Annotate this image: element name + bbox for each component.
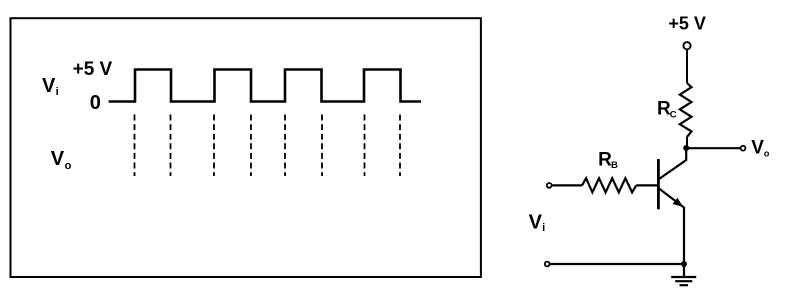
svg-text:V: V: [529, 211, 543, 233]
svg-text:o: o: [764, 149, 770, 159]
transistor Q1 emitter lead: [659, 189, 684, 265]
dashed edge marker 1: [134, 115, 136, 177]
svg-text:B: B: [611, 160, 618, 171]
dashed edge marker 4: [250, 115, 252, 177]
input square wave Vi: [109, 70, 421, 102]
svg-text:R: R: [598, 150, 612, 171]
transistor Q1 collector lead: [659, 148, 686, 179]
ground bar 3: [680, 284, 689, 286]
svg-text:V: V: [751, 138, 764, 159]
svg-text:V: V: [42, 75, 56, 97]
output terminal: [741, 146, 746, 151]
dashed edge marker 5: [284, 115, 286, 177]
wire RC to collector node: [686, 137, 688, 150]
wire RB to base: [636, 184, 657, 186]
dashed edge marker 2: [170, 115, 172, 177]
node emitter-ground junction: [681, 261, 687, 267]
resistor RB: [582, 178, 636, 192]
dashed edge marker 7: [364, 115, 366, 177]
bottom rail wire: [550, 263, 684, 265]
input terminal: [547, 183, 552, 188]
svg-text:+5 V: +5 V: [668, 13, 706, 33]
svg-text:i: i: [542, 222, 545, 234]
svg-text:C: C: [670, 109, 677, 120]
dashed edge marker 3: [213, 115, 215, 177]
ground bar 2: [675, 280, 692, 282]
node collector junction: [683, 145, 689, 151]
wire collector node to output terminal: [686, 147, 740, 149]
transistor Q1 emitter arrowhead: [673, 198, 683, 207]
ground bar 1: [671, 276, 696, 278]
waveform panel border: [11, 18, 481, 277]
svg-text:o: o: [65, 160, 72, 172]
svg-text:V: V: [51, 148, 65, 170]
wire supply terminal to RC: [686, 49, 688, 83]
bottom-left terminal: [545, 262, 550, 267]
resistor RC: [680, 83, 692, 137]
svg-text:i: i: [56, 86, 59, 98]
svg-text:0: 0: [90, 92, 101, 114]
transistor Q1 base bar: [657, 159, 660, 209]
dashed edge marker 6: [321, 115, 323, 177]
ground stem: [683, 264, 685, 277]
svg-text:+5 V: +5 V: [73, 59, 113, 80]
dashed edge marker 8: [399, 115, 401, 177]
wire input terminal to RB: [552, 184, 582, 186]
supply terminal: [683, 42, 690, 49]
